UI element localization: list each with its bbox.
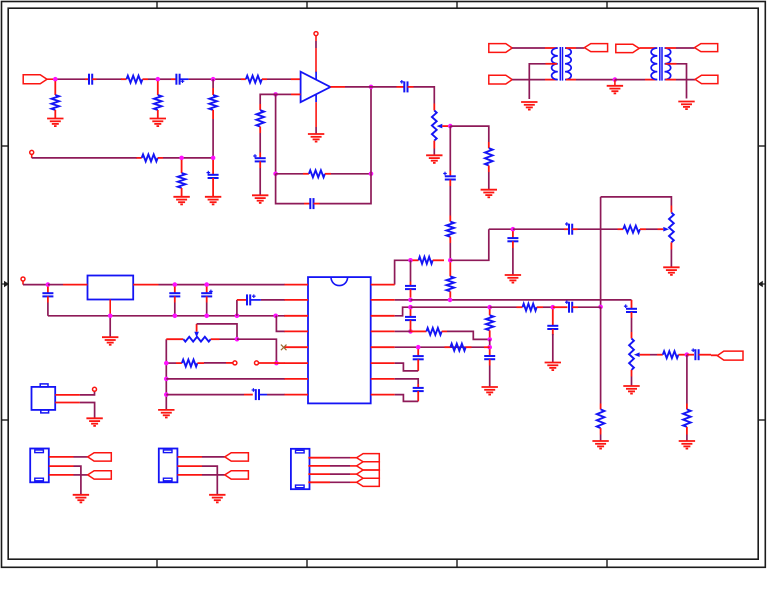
- wire pin R2 long to pot RP2: [411, 299, 632, 301]
- potentiometer RP1 vertical: [433, 104, 435, 111]
- wire T1 secondary bottom to node AG: [566, 79, 576, 81]
- node AE junction: [487, 345, 492, 350]
- J3 flag 3: [357, 470, 380, 478]
- wire node F down to node G: [275, 94, 277, 173]
- J1 pin1: [49, 456, 74, 458]
- node AD junction: [487, 337, 492, 342]
- ground for C4: [252, 195, 268, 203]
- wire node AA to R17: [490, 306, 517, 308]
- resistor R11 vertical: [449, 216, 451, 222]
- J2 pin2: [177, 465, 202, 467]
- wire C9 to ground: [512, 248, 514, 275]
- wire U2 output to IC pin L1: [159, 284, 285, 286]
- J3 flag 4: [357, 478, 380, 486]
- node C junction: [211, 77, 216, 82]
- wire P1 to node A: [47, 78, 55, 80]
- ground for T1 tap: [521, 102, 537, 110]
- wire R8 to C4: [259, 133, 261, 153]
- ground for R14: [592, 441, 608, 449]
- resistor R12: [413, 259, 419, 261]
- node AB junction: [551, 305, 556, 310]
- resistor R1 to ground: [54, 81, 56, 95]
- capacitor C18 below node N: [47, 287, 49, 294]
- border zone ticks right: [758, 146, 765, 420]
- resistor R15: [657, 354, 663, 356]
- transformer T1 secondary coil: [565, 48, 571, 80]
- wire node U to IC pin L7: [166, 378, 284, 380]
- resistor R2: [121, 78, 127, 80]
- wire J3 pin1 to flag: [330, 457, 350, 459]
- J1 pin2: [49, 465, 74, 467]
- op-amp output pin: [330, 86, 345, 88]
- MK1 top tab: [40, 384, 48, 387]
- port PE: [695, 44, 718, 52]
- resistor R19: [445, 346, 451, 348]
- connector J1 body: [30, 449, 49, 483]
- wire node G to R9: [276, 173, 303, 175]
- wire R2 to node B: [148, 78, 158, 80]
- wire IC pin R4 to node AC: [395, 330, 411, 332]
- wire from op-amp pinR1 column to node K: [395, 260, 411, 284]
- node AC junction: [408, 329, 413, 334]
- wire node D to node E: [182, 157, 214, 159]
- capacitor C22 between pin R5 and pin R6: [417, 349, 419, 356]
- border arrow left: [2, 281, 10, 288]
- op-amp -input pin: [291, 93, 301, 95]
- output node junction: [369, 85, 374, 90]
- J3 flag 2: [357, 462, 380, 470]
- resistor R8 vertical: [259, 104, 261, 110]
- ground for J2: [209, 495, 225, 503]
- node X junction: [448, 298, 453, 303]
- port PF: [695, 75, 718, 83]
- RP4 wiper arrow down: [194, 332, 199, 338]
- wire terminal to node N: [22, 281, 24, 285]
- resistor R17: [517, 306, 523, 308]
- IC left pins: [284, 285, 308, 395]
- potentiometer RP3 vertical: [670, 206, 672, 213]
- rail junction node Q: [273, 314, 278, 319]
- wire node Y down to R16: [686, 355, 688, 404]
- node U junction: [164, 377, 169, 382]
- capacitor C19 below node O: [174, 287, 176, 294]
- node AF junction: [416, 345, 421, 350]
- resistor R14 vertical: [600, 404, 602, 410]
- resistor R5: [137, 157, 142, 159]
- capacitor C21 to IC pin L2: [236, 300, 238, 316]
- ground for R1: [47, 119, 63, 127]
- wire node N to regulator U2: [48, 284, 63, 286]
- capacitor C17 polarized: [244, 394, 253, 396]
- node T junction: [164, 361, 169, 366]
- wire node A to C1: [55, 78, 85, 80]
- capacitor C2 polarized: [171, 78, 176, 80]
- wire MK1 pin1 to terminal: [80, 391, 95, 395]
- IC U3 notch: [331, 277, 348, 285]
- wire R10 to ground: [488, 172, 490, 190]
- wire node Z to node AA: [411, 306, 490, 308]
- ground for MK1: [86, 418, 102, 426]
- resistor R3 to ground: [157, 81, 159, 95]
- wire J3 pin3 to flag: [330, 473, 350, 475]
- J2 flag 2: [225, 471, 249, 479]
- port PA: [489, 44, 512, 53]
- switch SW1 circle A: [233, 361, 237, 365]
- wire IC pin R7 jog down: [395, 379, 419, 384]
- output port POUT: [717, 351, 743, 360]
- node AG junction: [613, 77, 618, 82]
- wire R16 to ground: [686, 435, 688, 441]
- vertical resistor R22 between node AA and node AD: [489, 309, 491, 315]
- connector J2 body: [159, 449, 178, 483]
- transformer T2 core: [659, 47, 661, 81]
- lead RP1 wiper to node I: [442, 125, 450, 127]
- feedback resistor R9: [303, 173, 309, 175]
- op-amp U1 triangle: [301, 72, 331, 103]
- RP2 wiper arrow: [634, 352, 640, 357]
- ground for R16: [679, 441, 695, 449]
- capacitor C15 below node AE: [489, 349, 491, 356]
- potentiometer RP4 horizontal: [166, 338, 183, 340]
- capacitor C23 between pin R7 and pin R8: [417, 384, 419, 388]
- node P junction: [204, 282, 209, 287]
- node J junction: [448, 258, 453, 263]
- resistor R7 vertical: [212, 88, 214, 95]
- wire R13 to RP3 arrow: [646, 228, 658, 230]
- capacitor C16 between node K and pin R2: [410, 260, 412, 281]
- border zone ticks bottom: [157, 559, 607, 567]
- regulator U2 body: [88, 276, 134, 300]
- wire R18 jog down to node AD: [447, 331, 490, 339]
- wire J2 pin2 to ground: [202, 466, 217, 494]
- MK1 bottom tab: [41, 410, 49, 413]
- ground for R3: [150, 119, 166, 127]
- capacitor C7 polarized: [449, 171, 451, 177]
- ground for T2 tap: [678, 102, 694, 110]
- wire corner to node L: [489, 228, 513, 230]
- ground for RP2: [623, 386, 639, 394]
- wire IC pin R2 to node K column: [395, 299, 411, 301]
- RP3 wiper arrow: [663, 227, 669, 232]
- wire IC pin R3 jog up: [395, 307, 411, 316]
- ground for C9: [505, 275, 521, 283]
- wire PD to T2: [639, 47, 656, 49]
- ground for U2: [102, 337, 118, 345]
- wire J3 pin4 to flag: [330, 481, 350, 483]
- node H junction: [369, 172, 374, 177]
- capacitor C12 polarized: [553, 306, 568, 308]
- wire left column top corner: [165, 339, 167, 409]
- feedback capacitor C5: [304, 203, 310, 205]
- capacitor C20 polarized below node P: [206, 287, 208, 294]
- border zone ticks left: [2, 146, 9, 420]
- capacitor C13 below node AB: [552, 309, 554, 326]
- wire T2 secondary bottom to port PF: [665, 79, 676, 81]
- node D junction: [179, 156, 184, 161]
- no-connect X on IC pin L5: [281, 345, 287, 351]
- wire C18 to ground rail: [47, 303, 49, 316]
- node S junction: [274, 361, 279, 366]
- capacitor C1: [85, 78, 89, 80]
- wire J1 pin1 to flag: [74, 456, 88, 458]
- wire T1 tap to ground: [529, 64, 545, 99]
- J3 pin3: [308, 473, 330, 475]
- border zone ticks top: [157, 2, 607, 9]
- wire SW1 to node S: [259, 362, 277, 364]
- border arrow right: [758, 281, 766, 288]
- wire node B to C2: [158, 78, 171, 80]
- rail junction at U2 ground: [108, 314, 113, 319]
- transformer T2 primary coil: [651, 48, 657, 80]
- ground for left column: [158, 410, 174, 418]
- rail junction below C20: [204, 314, 209, 319]
- wire C6 to pot RP1: [414, 87, 435, 104]
- wire node I down to C7: [449, 126, 451, 170]
- ground for C13: [545, 363, 561, 371]
- wire node C to R4: [213, 78, 241, 80]
- regulator U2 output pin: [133, 284, 158, 286]
- capacitor C11 polarized: [687, 354, 694, 356]
- connector J3 body: [291, 449, 310, 489]
- ground for R10: [481, 190, 497, 198]
- port PB: [584, 44, 607, 52]
- wire C8 to R13: [578, 228, 618, 230]
- wire IC pin R5 row: [395, 346, 484, 348]
- op-amp ground pin: [315, 95, 317, 102]
- long wire column x600: [600, 197, 602, 307]
- regulator U2 input pin: [63, 284, 88, 286]
- ground rail wire: [48, 315, 285, 317]
- node K junction: [408, 258, 413, 263]
- wire J1 pin2 to ground: [74, 466, 81, 494]
- capacitor C8 polarized: [564, 228, 569, 230]
- node M junction: [598, 305, 603, 310]
- capacitor C9 below node L: [512, 231, 514, 238]
- wire node V to C17: [166, 394, 244, 396]
- resistor R10 vertical: [488, 142, 490, 148]
- node AA junction: [487, 305, 492, 310]
- node F junction (inverting input): [273, 92, 278, 97]
- IC right pins: [371, 285, 395, 395]
- resistor R21 between node J and node X: [449, 262, 451, 276]
- wire T2 tap to ground: [677, 64, 687, 99]
- resistor R16 vertical: [686, 404, 688, 410]
- ground for RP3: [663, 267, 679, 275]
- wire RP4 wiper loop: [196, 324, 198, 332]
- transformer T2 tap lead: [665, 63, 676, 65]
- terminal circle MK1: [93, 387, 97, 391]
- node O junction: [173, 282, 178, 287]
- ground for R6: [173, 197, 189, 205]
- wire J2 pin3 to flag: [202, 474, 225, 476]
- wire node L to C8: [513, 228, 564, 230]
- rail junction below C19: [173, 314, 178, 319]
- terminal circle input 2: [30, 150, 34, 154]
- capacitor C3 polarized below node E: [212, 160, 214, 175]
- wire to R15: [650, 354, 657, 356]
- node G junction: [273, 172, 278, 177]
- op-amp power wire: [315, 36, 317, 41]
- wire node I to R10: [450, 126, 489, 142]
- wire J3 pin2 to flag: [330, 465, 350, 467]
- wire R5 to node D: [163, 157, 182, 159]
- wire C11 to output port: [711, 354, 717, 356]
- port PD: [616, 44, 639, 52]
- wire MK1 pin2 to ground: [80, 403, 95, 419]
- wire T1 secondary top to port PB: [566, 47, 576, 49]
- wire IC pin R8 jog: [395, 395, 419, 402]
- MK1 pin 1: [55, 394, 80, 396]
- wire RP3 top from long column: [601, 197, 672, 206]
- wire IC pin R6 jog: [395, 363, 419, 371]
- wire C5 to output column: [320, 174, 372, 204]
- potentiometer RP2 vertical: [631, 332, 633, 339]
- ground for C15: [482, 387, 498, 395]
- J3 flag 1: [357, 454, 380, 462]
- wire C19 to rail: [174, 303, 176, 316]
- resistor R13: [618, 228, 624, 230]
- wire from terminal: [31, 154, 33, 158]
- J2 pin1: [177, 456, 202, 458]
- node L junction: [511, 227, 516, 232]
- node Z junction: [408, 305, 413, 310]
- wire PA to T1: [512, 47, 545, 49]
- wire node C down to R7: [212, 79, 214, 88]
- node E junction: [211, 156, 216, 161]
- wire op-amp output to node: [345, 86, 371, 88]
- wire node F to R8 chain: [260, 94, 275, 104]
- wire node J to corner: [450, 229, 489, 260]
- wire node Z down to C14: [410, 309, 412, 317]
- capacitor C4 polarized: [259, 153, 261, 159]
- J3 pin2: [308, 465, 330, 467]
- wire R17 to node AB: [543, 306, 553, 308]
- wire C7 to R11: [449, 186, 451, 216]
- node B junction: [156, 77, 161, 82]
- wire J1 pin3 to flag: [74, 474, 88, 476]
- wire C12 to node M: [578, 306, 601, 308]
- ground for RP1: [433, 149, 435, 156]
- wire C13 to ground: [552, 334, 554, 362]
- wire R11 to node J: [449, 243, 451, 260]
- wire node H up to output node: [370, 87, 372, 174]
- ground for op-amp: [308, 134, 324, 142]
- IC U3 body: [308, 277, 371, 403]
- regulator U2 ground pin: [109, 300, 111, 316]
- resistor R4: [241, 78, 246, 80]
- wire C17 to IC pin L8: [267, 394, 285, 396]
- ground below node AG: [614, 80, 616, 86]
- resistor R6 below node D: [181, 160, 183, 173]
- transformer T1 primary coil: [552, 48, 558, 80]
- wire C4 to ground: [259, 168, 261, 195]
- node A junction: [53, 77, 58, 82]
- switch SW1 circle B: [255, 361, 259, 365]
- supply terminal circle: [21, 277, 25, 281]
- RP1 wiper arrow: [437, 124, 443, 129]
- wire R20 to SW1: [204, 362, 226, 364]
- wire PC to T1: [512, 79, 545, 81]
- transformer T1 tap lead: [546, 63, 558, 65]
- ground for C3: [205, 197, 221, 205]
- wire node Q to IC pin L4: [276, 316, 285, 332]
- lead RP2 wiper to R15: [640, 354, 650, 356]
- node W junction: [408, 298, 413, 303]
- wire node AG to T2: [615, 79, 645, 81]
- port P1 input: [23, 75, 47, 84]
- wire C20 to rail: [206, 303, 208, 316]
- resistor R20 switch row: [166, 362, 176, 364]
- wire U2 ground pin to ground: [109, 316, 111, 337]
- wire node F to op-amp: [276, 93, 291, 95]
- resistor R18: [411, 330, 427, 332]
- capacitor C10 polarized: [631, 300, 633, 309]
- port PC: [489, 75, 512, 84]
- wire C1 to R2: [97, 78, 123, 80]
- wire node AD to node AE: [489, 339, 491, 347]
- wire RP3 bottom to ground: [670, 250, 672, 268]
- wire T2 secondary top to port PE: [665, 47, 676, 49]
- J1 flag 2: [88, 471, 112, 479]
- transformer T1 core: [559, 47, 561, 81]
- wire output node to C6: [371, 86, 397, 88]
- wire J2 pin1 to flag: [202, 456, 225, 458]
- rail junction below C21: [235, 314, 240, 319]
- J1 pin3: [49, 474, 74, 476]
- node Y junction: [685, 352, 690, 357]
- J2 pin3: [177, 474, 202, 476]
- microphone MK1 body: [32, 387, 56, 410]
- J3 pin4: [308, 481, 330, 483]
- node N junction: [46, 282, 51, 287]
- wire C14 to node AC: [410, 329, 412, 331]
- wire R14 to ground: [600, 435, 602, 441]
- node R junction: [235, 337, 240, 342]
- wire node S to IC pin L6: [276, 362, 284, 364]
- wire node M down to R14: [600, 307, 602, 404]
- wire R7 to node E: [212, 119, 214, 158]
- lead into node AE: [484, 346, 490, 348]
- node V junction: [164, 392, 169, 397]
- ground for J1: [73, 495, 89, 503]
- node I junction: [448, 124, 453, 129]
- wire RP4 right to node R: [220, 338, 238, 340]
- wire C10 to RP2: [631, 318, 633, 332]
- J3 pin1: [308, 457, 330, 459]
- transformer T2 secondary coil: [665, 48, 671, 80]
- wire RP2 bottom to ground: [631, 377, 633, 386]
- wire R4 to op-amp U1 +input: [267, 78, 291, 80]
- op-amp power terminal circle: [314, 32, 318, 36]
- capacitor C6 polarized: [397, 86, 405, 88]
- wire node R to pin L6 column: [237, 339, 276, 363]
- wire node G down to C5: [276, 174, 304, 204]
- J1 flag 1: [88, 453, 112, 461]
- wire R9 to node H column: [331, 173, 371, 175]
- wire C2 to node C: [189, 78, 214, 80]
- MK1 pin 2: [55, 402, 80, 404]
- J2 flag 1: [225, 453, 249, 461]
- wire C15 to ground: [489, 366, 491, 387]
